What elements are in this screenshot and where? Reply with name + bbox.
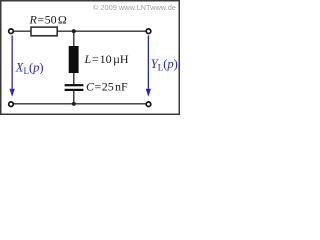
svg-text:C=25nF: C=25nF	[86, 80, 128, 94]
inductor L	[69, 46, 79, 73]
svg-text:YL(p): YL(p)	[151, 57, 178, 72]
wire top-right segment	[58, 30, 146, 32]
wire vertical branch middle	[73, 73, 75, 85]
svg-text:L=10µH: L=10µH	[84, 52, 129, 66]
terminal bottom-left	[9, 102, 14, 107]
resistor R	[31, 27, 57, 36]
frame border	[1, 1, 180, 115]
wire top-left segment	[14, 30, 31, 32]
terminal top-right	[146, 29, 151, 34]
capacitor C top plate	[65, 84, 84, 86]
arrow X_L(p)	[10, 35, 15, 96]
wire vertical branch upper	[73, 31, 75, 46]
wire vertical branch lower	[73, 91, 75, 104]
junction dot bottom	[72, 102, 76, 106]
junction dot top	[72, 29, 76, 33]
terminal top-left	[9, 29, 14, 34]
terminal bottom-right	[146, 102, 151, 107]
arrow Y_L(p)	[146, 35, 151, 96]
svg-text:R=50Ω: R=50Ω	[29, 12, 67, 26]
capacitor C bottom plate	[65, 89, 84, 91]
wire bottom segment	[14, 103, 146, 105]
svg-text:© 2009 www.LNTwww.de: © 2009 www.LNTwww.de	[93, 3, 176, 12]
svg-text:XL(p): XL(p)	[15, 61, 44, 76]
